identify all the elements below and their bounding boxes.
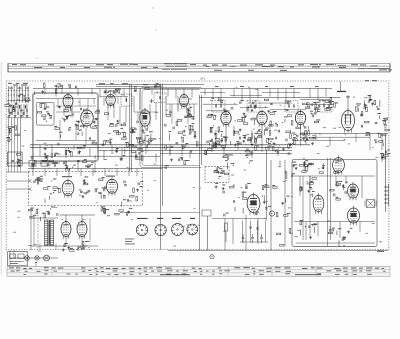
osc section parts — [165, 142, 198, 169]
wires in FM box — [36, 99, 96, 145]
volume pot — [269, 211, 274, 216]
parts list strip bottom — [7, 267, 390, 277]
wire IF rail — [199, 97, 340, 99]
wire verticals into dashed box B — [7, 140, 138, 176]
box C interior verticals — [285, 158, 331, 246]
coil box osc — [154, 93, 166, 102]
schematic dotted border — [6, 81, 389, 250]
IF ring below 262 — [254, 128, 268, 144]
PSU filter verticals — [240, 221, 268, 243]
dashed box filter — [205, 166, 229, 182]
wire left shield pair — [129, 84, 131, 171]
labels above box B tubes — [62, 176, 115, 178]
right edge upper extra — [362, 100, 387, 146]
left switch extra parts — [5, 94, 25, 117]
mixer parts — [165, 107, 197, 142]
wire right vertical — [385, 135, 387, 212]
mid top wiring — [104, 89, 120, 94]
transformer top wiring — [28, 207, 58, 222]
wire speaker line — [10, 257, 58, 259]
tube V3 EF41 — [106, 95, 116, 106]
tube V1 EC92 — [63, 95, 73, 108]
fuse lamp — [210, 255, 214, 259]
socket diagram 4 — [187, 224, 198, 235]
socket diagram 2 — [155, 224, 166, 235]
socket diagram 1 — [136, 224, 147, 235]
parts list text — [9, 267, 386, 275]
wire center vertical pair — [199, 95, 201, 250]
wire drops from top bus — [45, 89, 326, 110]
amp bottom parts — [62, 241, 90, 251]
near filter box — [214, 160, 253, 173]
left AF column — [272, 185, 290, 246]
IF ring right 300.5 — [310, 111, 320, 123]
box A interior extra — [58, 106, 97, 159]
IF stage components at 226 — [211, 126, 240, 146]
wire mid rail D — [160, 152, 292, 154]
output stage parts2 — [330, 181, 348, 200]
left of sockets — [101, 206, 132, 216]
IF transformer box 2 — [247, 101, 260, 113]
dial scale text marks — [12, 63, 392, 70]
output stage parts — [300, 178, 317, 197]
tube V7 EF89 — [257, 111, 267, 124]
top mid wiring2 — [134, 83, 160, 91]
wire top bus — [33, 88, 332, 90]
tube V5 EF89 — [180, 95, 189, 107]
wire EM34 feed — [347, 95, 349, 110]
wire mid rail E — [30, 155, 160, 157]
wire left drops — [8, 118, 10, 140]
output transformer T2 — [365, 200, 376, 208]
tube V4 ECH81 — [140, 110, 150, 126]
trimmer cross — [150, 100, 154, 102]
tube V13 EABC80 — [333, 158, 345, 173]
wire mid rail C — [98, 150, 292, 152]
connector box bottom left — [8, 252, 28, 266]
wire links IF strip — [200, 93, 334, 111]
wire EM34 drop from border — [340, 82, 342, 93]
tube V6 EF89 — [221, 111, 231, 124]
pickup input wires — [7, 180, 32, 191]
AF preamp parts right — [122, 181, 143, 207]
FM tuner right parts — [54, 106, 98, 140]
right edge parts — [379, 118, 390, 142]
IF ring below 226 — [220, 136, 230, 144]
shield box FM tuner — [33, 93, 99, 162]
FM tuner lower parts — [44, 145, 82, 159]
IF transformer box 3 — [285, 101, 298, 113]
agc row — [302, 97, 338, 112]
left column verticals low — [30, 208, 32, 250]
wire bottom rail — [168, 249, 388, 251]
wire top bus 2 — [96, 84, 204, 86]
IF transformer box 1 — [212, 101, 225, 113]
loudspeaker — [44, 255, 50, 261]
FM tuner interior parts — [37, 103, 52, 122]
tube V17 EL41 — [61, 222, 71, 237]
trimmer left — [26, 98, 30, 102]
socket box — [202, 210, 211, 216]
wire drops mid rails — [40, 145, 278, 162]
socket notes — [125, 239, 135, 245]
left mixer low extra — [115, 123, 137, 160]
tube V16 output — [348, 208, 360, 223]
tube V12 rectifier — [247, 195, 260, 213]
IF ring below 300.5 — [292, 133, 305, 141]
shield box output — [292, 159, 377, 246]
wire drops mixer band — [108, 96, 194, 140]
wire left low rail — [7, 162, 61, 164]
speaker wiring — [380, 150, 391, 162]
above box B wiring — [31, 160, 93, 169]
above box B extra — [31, 157, 87, 170]
tube V8 EABC80 — [295, 111, 305, 124]
IF ring left 262 — [243, 115, 255, 130]
IF ring right 226 — [235, 112, 246, 121]
border top right marks — [365, 80, 369, 81]
ratio detector box — [320, 101, 332, 113]
tube V18 EL41 — [77, 222, 87, 237]
wire detector vertical — [266, 150, 268, 220]
strip separators — [52, 267, 352, 277]
labels above mixer — [99, 83, 148, 85]
IF stage 2 parts — [245, 130, 290, 158]
mark above strip — [35, 262, 37, 264]
resistor R80 — [225, 223, 228, 231]
af coupling parts — [280, 159, 313, 179]
IF ring left 300.5 — [282, 115, 293, 133]
wire above dashed box — [28, 168, 162, 170]
top bus labels — [215, 85, 319, 88]
agc switch row — [306, 100, 335, 109]
mixer shield box inner — [142, 90, 200, 166]
wire AF vertical — [270, 160, 272, 250]
AF preamp parts mid — [79, 177, 106, 199]
electrolytic C92 — [261, 234, 263, 237]
connector box inner parts — [10, 254, 25, 264]
wire mid rail B — [30, 147, 292, 149]
if1 lower extra — [208, 128, 223, 150]
mixer left parts — [95, 110, 119, 146]
osc upper extra — [169, 113, 195, 140]
tube V14 EL84 — [313, 195, 324, 211]
detector parts — [292, 126, 314, 144]
wires bottom middle — [120, 213, 266, 251]
IF stage components at 262 — [247, 126, 276, 146]
scan page left edge — [0, 62, 2, 275]
wire mid rail A — [30, 144, 310, 146]
ladder under V4 — [136, 128, 156, 144]
tube V10 triode — [62, 180, 74, 195]
tube V2 EC92 — [81, 110, 94, 126]
mixer shield box outer — [140, 88, 201, 168]
tube V15 output — [348, 184, 359, 198]
dashed box AF preamp — [29, 171, 143, 205]
psu parts — [215, 183, 251, 217]
tube V9 EM34 — [342, 111, 355, 131]
between shield parts — [116, 121, 138, 161]
electrolytic C91 — [252, 234, 254, 237]
svg-text:uR 1: uR 1 — [200, 77, 206, 81]
pilot lamp 2 — [35, 256, 39, 260]
under box C — [328, 228, 352, 247]
IF top parts — [210, 97, 290, 112]
filter parts — [214, 167, 229, 179]
wires mixer area — [100, 97, 198, 127]
wire top bus 3 — [96, 85, 162, 87]
band switch assembly — [7, 85, 31, 118]
IF ring right 262 — [269, 111, 278, 127]
feedback parts — [300, 220, 317, 239]
coil can — [121, 94, 132, 106]
pickup terminal box — [8, 152, 23, 166]
wires inside output box — [294, 176, 375, 243]
wires around mains transformer — [10, 218, 98, 266]
V4 ladder — [136, 129, 151, 160]
box C top inner — [305, 163, 337, 173]
IF stage 1 parts — [204, 127, 247, 159]
speaker connector ticks — [384, 184, 389, 206]
note below border right — [377, 251, 384, 252]
sub box oscillator — [37, 103, 55, 126]
wire right column links — [36, 134, 388, 151]
pickup box parts — [11, 154, 22, 167]
left mid parts — [7, 126, 20, 142]
parts above box B row — [29, 160, 95, 171]
tube V11 triode — [106, 179, 117, 193]
top left wiring — [35, 83, 77, 95]
speck top — [152, 7, 153, 8]
wire socket drop — [207, 216, 209, 250]
wire gang vertical pair — [160, 84, 162, 250]
em34 right parts — [364, 95, 388, 143]
component value labels — [13, 87, 386, 247]
wire output tubes top — [60, 214, 95, 216]
rect parts — [255, 184, 271, 215]
IF stage components at 300.5 — [286, 126, 315, 146]
AF preamp parts left — [33, 176, 60, 203]
socket diagram 3 — [172, 224, 184, 236]
rail junction dots — [36, 144, 292, 151]
em34 parts — [356, 100, 376, 116]
IF ring left 226 — [207, 114, 220, 131]
electrolytic C90 — [242, 234, 244, 237]
mains transformer T1 — [45, 220, 54, 246]
band switch extra — [7, 83, 31, 118]
pilot lamp 1 — [25, 256, 30, 261]
dial scale strip top — [8, 63, 390, 72]
